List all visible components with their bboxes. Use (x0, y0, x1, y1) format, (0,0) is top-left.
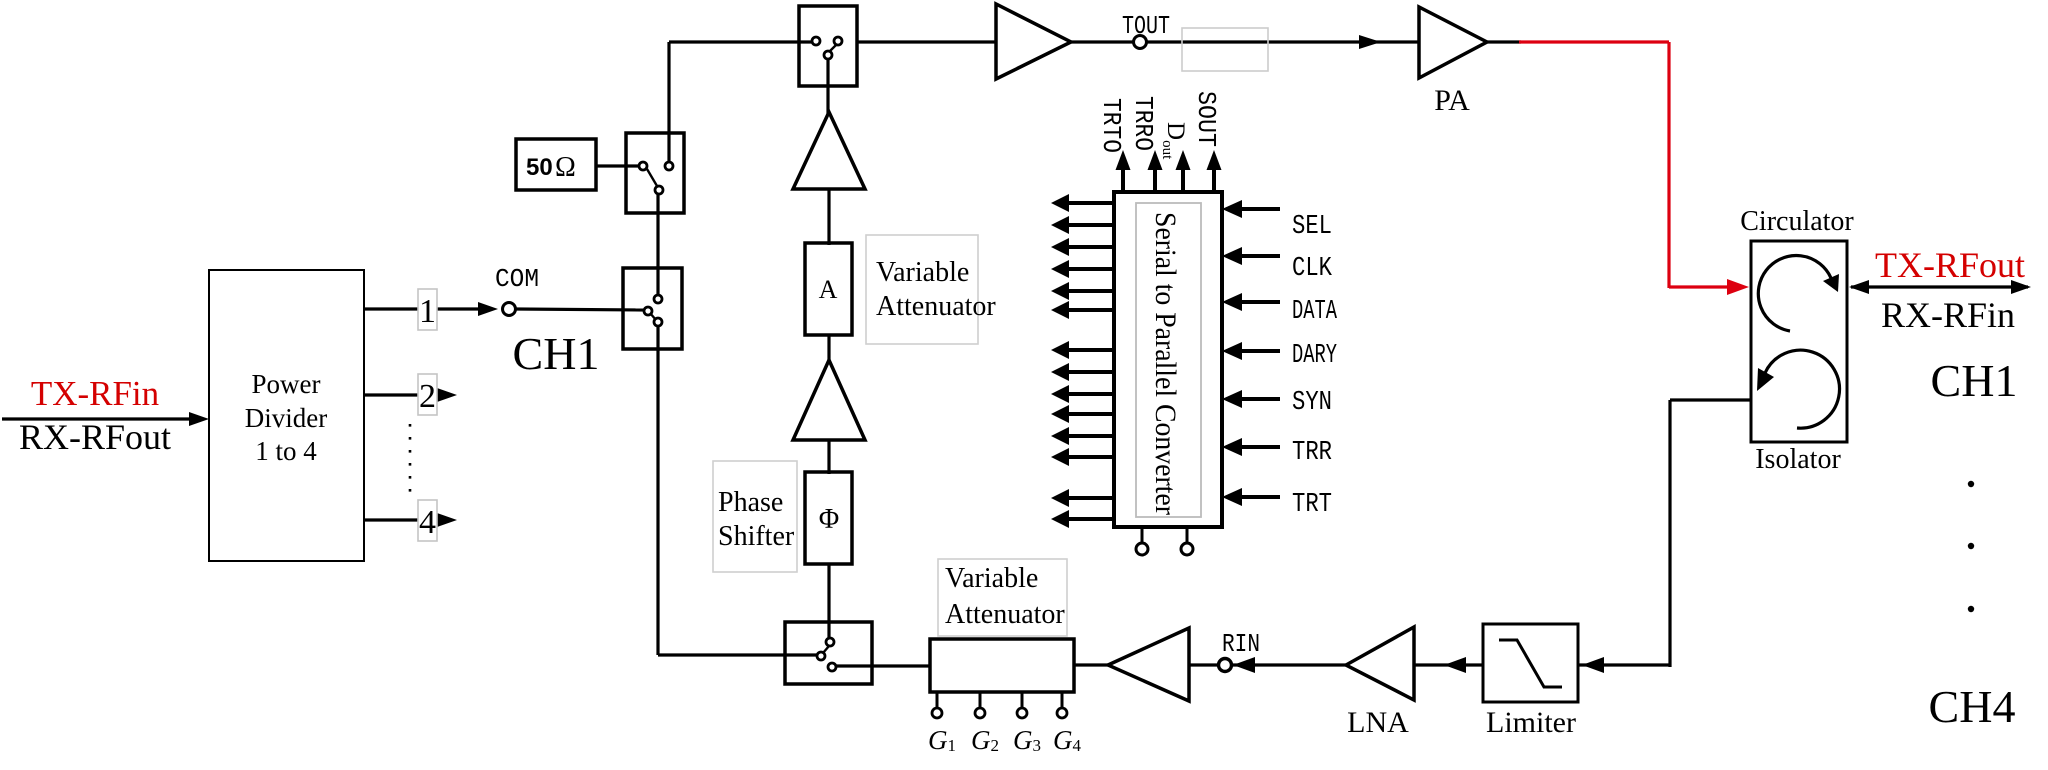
svg-text:Power: Power (252, 369, 321, 399)
svg-text:CH1: CH1 (1931, 355, 2018, 406)
svg-text:DATA: DATA (1292, 297, 1338, 327)
svg-text:Attenuator: Attenuator (945, 599, 1065, 630)
svg-text:DARY: DARY (1292, 341, 1337, 371)
svg-text:TOUT: TOUT (1122, 11, 1170, 41)
svg-text:A: A (819, 275, 838, 304)
svg-text:CH4: CH4 (1929, 681, 2016, 732)
svg-text:RX-RFout: RX-RFout (19, 417, 171, 457)
svg-text:PA: PA (1434, 84, 1470, 117)
svg-text:TRR: TRR (1292, 438, 1332, 468)
svg-text:SOUT: SOUT (1191, 91, 1221, 147)
svg-text:Phase: Phase (718, 487, 783, 518)
svg-text:SYN: SYN (1292, 388, 1332, 418)
svg-text:Divider: Divider (245, 403, 327, 433)
svg-text:Ω: Ω (555, 152, 576, 183)
svg-text:Shifter: Shifter (718, 521, 795, 552)
svg-text:TRRO: TRRO (1128, 96, 1158, 151)
svg-text:4: 4 (419, 504, 436, 541)
svg-text:50: 50 (526, 154, 553, 181)
svg-text:CLK: CLK (1292, 254, 1333, 284)
svg-text:Circulator: Circulator (1740, 206, 1854, 237)
svg-text:TX-RFout: TX-RFout (1875, 245, 2025, 285)
svg-text:TRT: TRT (1292, 490, 1332, 520)
svg-text:1 to 4: 1 to 4 (255, 436, 317, 466)
svg-text:Isolator: Isolator (1755, 444, 1841, 475)
svg-text:Serial to Parallel Converter: Serial to Parallel Converter (1149, 212, 1182, 515)
svg-text:Variable: Variable (945, 563, 1038, 594)
svg-text:Φ: Φ (819, 504, 839, 535)
svg-text:SEL: SEL (1292, 212, 1332, 242)
svg-text:COM: COM (495, 264, 539, 294)
svg-text:Limiter: Limiter (1486, 706, 1576, 739)
svg-text:Variable: Variable (876, 257, 969, 288)
svg-text:1: 1 (419, 293, 436, 330)
svg-text:RX-RFin: RX-RFin (1881, 295, 2015, 335)
svg-text:RIN: RIN (1222, 629, 1260, 659)
svg-text:Attenuator: Attenuator (876, 291, 996, 322)
svg-text:2: 2 (419, 378, 436, 415)
svg-text:TRTO: TRTO (1096, 98, 1126, 153)
svg-text:CH1: CH1 (513, 328, 600, 379)
svg-text:TX-RFin: TX-RFin (31, 374, 159, 413)
svg-text:LNA: LNA (1347, 706, 1409, 739)
